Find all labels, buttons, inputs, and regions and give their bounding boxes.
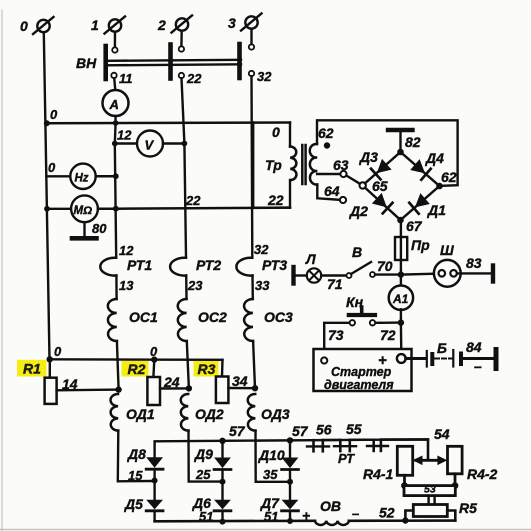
diode D5 — [124, 481, 163, 513]
svg-text:ОД2: ОД2 — [195, 406, 224, 422]
chassis terminal right of Sh — [491, 266, 495, 282]
wire battery 84 to chassis terminal — [463, 357, 494, 360]
svg-text:0: 0 — [150, 344, 158, 359]
scan edge artifact left — [1, 10, 3, 531]
node 67 — [397, 217, 404, 224]
svg-text:Б: Б — [437, 340, 447, 356]
node 52 — [402, 517, 408, 523]
svg-text:35: 35 — [263, 467, 278, 482]
scan edge artifact bottom — [0, 529, 531, 531]
diode D8 — [127, 446, 163, 469]
switch B — [347, 244, 376, 278]
transformer Tp primary box — [253, 123, 290, 209]
svg-text:56: 56 — [316, 422, 332, 438]
diode D1 — [409, 193, 446, 218]
svg-text:2: 2 — [157, 17, 166, 33]
slider link 53 to R5 — [429, 496, 435, 505]
resistor 53 — [404, 484, 455, 496]
battery B — [427, 340, 447, 367]
svg-text:В: В — [352, 244, 362, 260]
chassis terminal left of lamp L — [291, 267, 295, 284]
node 57 at D10 top — [287, 437, 293, 443]
bottom bus node52 wire — [349, 519, 455, 522]
wire R4-1 bottom to resistor 53 — [403, 475, 406, 485]
node 24 on column2 — [186, 385, 192, 391]
switch BH crossbar (double line) — [106, 60, 241, 61]
relay contact PT a (node 57-56) — [307, 440, 329, 451]
wire ammeter to bus0 — [114, 116, 116, 123]
wire resistor24 tap to column2 — [160, 387, 189, 390]
svg-text:ОС1: ОС1 — [129, 309, 158, 325]
node 35 — [287, 479, 293, 485]
coil OD2 — [181, 394, 189, 431]
svg-text:52: 52 — [379, 505, 395, 521]
wire Hz meter to column1 — [96, 175, 116, 178]
transformer Tp primary winding — [290, 146, 296, 180]
svg-text:70: 70 — [377, 258, 393, 274]
wire node 54 to rheostat wiper — [381, 439, 428, 458]
svg-text:67: 67 — [406, 218, 423, 234]
relay coil PT2 — [170, 258, 186, 276]
node 57 at D9 top — [219, 438, 225, 444]
bridge arm 65-67 — [365, 188, 401, 220]
wire bus 57 (diode top bus) — [155, 439, 428, 457]
svg-text:ОД3: ОД3 — [261, 406, 290, 422]
resistor 24 — [147, 360, 179, 405]
svg-text:34: 34 — [232, 373, 248, 389]
wire column2 down to PT2 — [184, 144, 186, 258]
yellow highlight R2 — [122, 361, 149, 377]
svg-text:64: 64 — [324, 183, 340, 199]
lamp L — [305, 251, 321, 283]
voltmeter V — [137, 131, 163, 157]
wire OD3 down to node35 — [256, 431, 288, 482]
svg-text:Д4: Д4 — [425, 150, 444, 166]
chassis terminal at node 82 — [388, 130, 413, 152]
resistor R5 — [413, 500, 477, 517]
wire terminal1 to switch pole1 — [114, 32, 116, 48]
node 70 junction — [398, 271, 404, 277]
wire secondary mid tap to terminal 63 — [317, 173, 340, 175]
wire OD2 down to node25 — [189, 431, 220, 482]
wire column1 net12 down to PT1 — [115, 144, 116, 258]
svg-text:0: 0 — [48, 160, 56, 175]
diode D4 — [410, 150, 444, 180]
rheostat R4-2 — [448, 446, 498, 482]
node 12 (voltmeter left junction) — [112, 141, 118, 147]
svg-text:Д10: Д10 — [258, 447, 285, 463]
svg-text:ВН: ВН — [76, 55, 97, 71]
svg-text:ОД1: ОД1 — [126, 406, 155, 422]
wire socket Sh to chassis terminal 83 — [457, 272, 491, 274]
svg-text:Л: Л — [305, 251, 316, 267]
svg-text:57: 57 — [229, 423, 246, 439]
terminal 0 — [20, 17, 54, 34]
wire terminal3 to switch pole3 — [250, 29, 252, 45]
node D7-bus — [287, 518, 293, 524]
wire resistor14 tap to column1 — [57, 388, 119, 391]
svg-text:R1: R1 — [23, 361, 41, 377]
svg-text:84: 84 — [466, 339, 482, 355]
bus net 0 horizontal — [47, 121, 290, 124]
svg-text:0: 0 — [54, 344, 62, 359]
svg-text:ОВ: ОВ — [320, 498, 341, 514]
svg-text:23: 23 — [187, 278, 203, 293]
wire secondary bottom to terminal 64 — [317, 185, 339, 200]
node Hz-column1 — [113, 173, 119, 179]
node 25 — [220, 479, 226, 485]
rheostat R4-1 — [363, 446, 413, 482]
relay coil PT1 — [100, 258, 116, 276]
svg-text:Д3: Д3 — [359, 149, 378, 165]
svg-text:15: 15 — [128, 468, 143, 483]
svg-text:0: 0 — [50, 107, 58, 122]
svg-text:12: 12 — [119, 243, 134, 258]
svg-text:двигателя: двигателя — [324, 378, 394, 392]
wire OD1 down to node15 — [118, 431, 152, 482]
svg-text:+: + — [302, 508, 310, 524]
bridge arm 65-82 — [365, 152, 401, 183]
svg-text:Д8: Д8 — [127, 446, 146, 462]
terminal 3 — [228, 14, 262, 32]
svg-text:Пр: Пр — [411, 237, 430, 253]
node 15 — [152, 478, 158, 484]
svg-text:22: 22 — [267, 192, 284, 208]
svg-text:82: 82 — [405, 134, 421, 150]
svg-text:32: 32 — [254, 242, 269, 257]
dashed wire battery B to battery 84 — [435, 358, 452, 360]
wire D10 to node35 — [289, 470, 291, 482]
svg-text:Д5: Д5 — [124, 496, 143, 512]
bridge arm 62-67 — [401, 186, 440, 220]
wire OC2 down to node24 — [187, 341, 189, 389]
polarity dot terminal 62 — [324, 142, 330, 148]
node voltmeter-column2 — [182, 141, 188, 147]
svg-text:ОС3: ОС3 — [264, 309, 293, 325]
terminal 2 — [157, 16, 192, 34]
wire Kn right contact to node 72 — [376, 321, 401, 324]
megohmmeter MOm — [71, 195, 98, 222]
relay contact PT b (node 56-55) — [334, 440, 356, 466]
wire R5 left terminal to node 52 — [405, 511, 413, 521]
svg-text:Hz: Hz — [75, 173, 89, 185]
switch BH pole1 upper contact — [112, 47, 117, 52]
svg-text:–: – — [352, 506, 359, 521]
svg-text:33: 33 — [255, 278, 270, 293]
wire fuse to node 70 — [400, 260, 402, 275]
pushbutton Kn — [346, 294, 375, 325]
wire column3 from contact32 down to PT3 — [250, 76, 253, 257]
svg-text:12: 12 — [117, 128, 132, 143]
transformer Tp core — [301, 145, 304, 184]
svg-text:57: 57 — [292, 423, 309, 439]
bridge node 65 — [360, 182, 366, 188]
wire node 67 to fuse — [400, 220, 402, 237]
svg-text:1: 1 — [91, 17, 99, 33]
wire D6 to bottom bus — [221, 511, 223, 522]
wire node 56 — [323, 439, 340, 442]
wire A1 to node 72 — [400, 309, 402, 322]
svg-text:25: 25 — [195, 467, 211, 482]
fuse Pr — [395, 237, 430, 260]
node 72 — [398, 319, 404, 325]
wire OC1 down across net0 to node14 — [117, 341, 119, 390]
switch BH pole3 lower contact, node 32 — [249, 71, 254, 76]
coil OC3 — [244, 299, 253, 341]
svg-text:72: 72 — [380, 327, 396, 343]
switch BH pole1 blade bar — [103, 46, 108, 79]
diode D2 — [349, 193, 393, 219]
wire starter plus to battery B — [406, 357, 425, 360]
bottom bus 51/52 left part — [155, 519, 315, 522]
diode D7 — [260, 482, 298, 524]
coil OD1 — [111, 394, 119, 431]
wire lamp to switch B pivot, node 71 — [321, 274, 346, 276]
wire node12 to voltmeter — [115, 142, 137, 145]
node at ammeter on bus0 — [113, 120, 119, 126]
svg-text:3: 3 — [228, 15, 236, 31]
switch BH pole2 upper contact — [179, 46, 184, 51]
starter motor box — [314, 349, 412, 392]
yellow highlight R1 — [17, 360, 47, 377]
wire node 55 — [350, 439, 374, 441]
wire terminal2 to switch pole2 — [180, 31, 183, 47]
svg-text:МΩ: МΩ — [74, 205, 93, 217]
transformer Tp secondary winding — [310, 144, 318, 185]
wire D8 to node15 — [153, 469, 155, 480]
svg-text:32: 32 — [257, 69, 272, 84]
svg-text:63: 63 — [333, 157, 349, 173]
svg-text:РТ: РТ — [338, 451, 355, 466]
node at R1 junction — [47, 356, 53, 362]
wire terminal 63 to node 65 — [346, 176, 360, 184]
node 0 junction on left vertical — [44, 120, 50, 126]
svg-text:Д1: Д1 — [427, 202, 446, 218]
switch BH pole2 lower contact, node 22 — [179, 73, 184, 78]
svg-text:РТ3: РТ3 — [262, 257, 287, 273]
terminal 64 — [340, 197, 346, 203]
battery 84 — [453, 339, 482, 374]
wire terminal0 to node0 bus (left vertical) — [44, 32, 50, 359]
node 14 on column1 — [115, 386, 121, 392]
svg-text:53: 53 — [424, 484, 436, 496]
wire secondary top (net 62) to bridge node 62 — [317, 120, 458, 186]
wire R4-2 bottom to resistor 53 — [454, 474, 457, 486]
ammeter A1 — [389, 286, 413, 310]
wire resistor34 tap to column3 — [228, 387, 255, 390]
svg-text:Ш: Ш — [440, 242, 454, 258]
wire net 0 horizontal (R1 row) — [50, 358, 223, 361]
svg-text:Д2: Д2 — [349, 203, 368, 219]
switch BH pole2 blade bar — [168, 45, 173, 79]
node 0 to megohmmeter junction — [44, 206, 50, 212]
diode D6 — [192, 482, 231, 524]
wire column2 from contact22 to voltmeter node — [182, 78, 185, 143]
svg-text:Стартер: Стартер — [331, 365, 392, 379]
node 0 at resistor 24 top — [151, 356, 157, 362]
coil OC1 — [108, 299, 117, 341]
diode D10 — [258, 440, 298, 469]
svg-text:–: – — [474, 358, 482, 374]
svg-text:55: 55 — [346, 421, 362, 437]
svg-text:80: 80 — [92, 221, 107, 236]
svg-text:13: 13 — [119, 278, 134, 293]
terminal 1 — [91, 17, 125, 34]
switch BH pole1 lower contact, node 11 — [111, 73, 116, 78]
node 82 — [397, 149, 404, 156]
wire voltmeter to column2 — [163, 142, 184, 145]
coil OD3 — [248, 394, 256, 431]
rheostat wiper double arrow — [413, 456, 448, 466]
wire PT3 to OC3 — [251, 276, 254, 300]
svg-text:R4-1: R4-1 — [363, 466, 394, 482]
meter Hz — [70, 164, 95, 189]
svg-text:62: 62 — [441, 169, 457, 185]
resistor 14 — [45, 359, 78, 404]
wire megohmmeter to column1 (net 22) — [98, 207, 116, 210]
wire switch B to node 70 — [375, 273, 401, 275]
svg-text:R5: R5 — [459, 500, 477, 516]
svg-text:83: 83 — [466, 255, 482, 271]
node at 53 right — [452, 482, 459, 489]
svg-text:54: 54 — [434, 426, 450, 442]
node at 53 left — [401, 482, 408, 489]
wire node 70 to socket Sh — [401, 274, 439, 275]
wire D5 to bottom bus — [153, 511, 155, 522]
relay coil PT3 — [236, 258, 252, 276]
svg-text:А1: А1 — [392, 292, 409, 306]
wire Kn left contact to node 73 — [324, 323, 349, 357]
switch BH pole3 upper contact — [249, 44, 254, 49]
wire node0 vertical to Hz meter — [46, 175, 70, 177]
node 62 — [436, 183, 443, 190]
wire OC3 down to node34 — [253, 341, 255, 389]
diode D3 — [359, 149, 392, 179]
wire D7 to bottom bus — [289, 511, 291, 521]
chassis terminal battery end — [494, 350, 499, 369]
resistor 34 — [216, 360, 248, 403]
wire PT2 to OC2 — [185, 276, 188, 300]
svg-text:A: A — [109, 97, 119, 112]
svg-text:62: 62 — [318, 125, 334, 141]
wire node0 to megohmmeter — [47, 208, 71, 210]
svg-text:V: V — [145, 138, 155, 153]
bridge arm 82-62 — [401, 152, 440, 186]
svg-text:22: 22 — [186, 71, 202, 86]
svg-text:РТ2: РТ2 — [196, 257, 221, 273]
ground symbol 80 under megohmmeter — [72, 221, 107, 238]
relay contact PT c (node 55-54) — [367, 440, 388, 451]
wire D9 to node25 — [221, 470, 223, 482]
svg-text:0: 0 — [20, 18, 28, 34]
node MOm-column1 — [113, 206, 119, 212]
svg-text:R4-2: R4-2 — [467, 466, 498, 482]
ammeter A — [103, 90, 129, 116]
socket Sh — [434, 242, 461, 287]
svg-text:R2: R2 — [128, 361, 146, 377]
wire node11 to ammeter — [114, 78, 115, 90]
node D6-bus — [220, 519, 226, 525]
svg-text:0: 0 — [272, 124, 280, 140]
wire node72 to starter plus — [400, 323, 403, 354]
wire R5 right terminal to bottom bus — [447, 511, 455, 521]
terminal 63 — [340, 171, 346, 177]
field winding OB — [315, 521, 349, 525]
switch BH pole3 blade bar — [237, 44, 242, 78]
svg-text:Тр: Тр — [265, 157, 282, 173]
svg-text:73: 73 — [328, 327, 344, 343]
svg-text:11: 11 — [119, 71, 133, 86]
coil OC2 — [178, 299, 187, 341]
svg-text:R3: R3 — [198, 361, 216, 377]
wire PT1 to OC1 — [115, 276, 118, 300]
svg-text:22: 22 — [185, 193, 201, 208]
wire net 22 from column1 to Tp box — [116, 208, 290, 209]
wire terminal to lamp L — [296, 274, 308, 276]
wire node70 to ammeter A1 — [400, 275, 402, 287]
yellow highlight R3 — [194, 361, 219, 377]
wire column1 bus0 to voltmeter junction — [114, 123, 117, 144]
svg-text:Д9: Д9 — [194, 446, 213, 462]
node 34 on column3 — [252, 385, 258, 391]
svg-text:ОС2: ОС2 — [198, 309, 227, 325]
diode D9 — [194, 441, 231, 470]
svg-text:71: 71 — [327, 276, 343, 292]
svg-text:РТ1: РТ1 — [127, 257, 152, 273]
